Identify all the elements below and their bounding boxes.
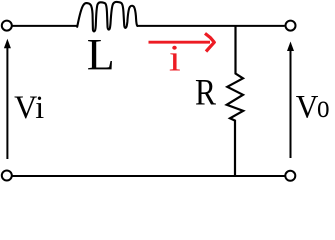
svg-text:L: L — [87, 30, 115, 79]
wire top-right segment — [137, 25, 285, 27]
svg-text:V: V — [296, 88, 319, 125]
terminal circle top-left — [2, 21, 12, 31]
svg-text:i: i — [169, 37, 181, 79]
voltage arrow Vo — [290, 49, 292, 158]
wire top-left segment — [13, 25, 78, 27]
svg-text:Vi: Vi — [14, 90, 44, 127]
svg-text:o: o — [317, 89, 330, 125]
current arrow i (red) — [149, 41, 211, 44]
inductor L — [77, 2, 137, 31]
wire bottom — [13, 175, 285, 177]
terminal circle top-right — [286, 21, 296, 31]
terminal circle bottom-left — [2, 171, 12, 181]
terminal circle bottom-right — [285, 171, 295, 181]
voltage arrow Vi — [6, 46, 8, 159]
resistor R branch wire and zigzag — [227, 26, 244, 176]
svg-text:R: R — [195, 72, 216, 113]
